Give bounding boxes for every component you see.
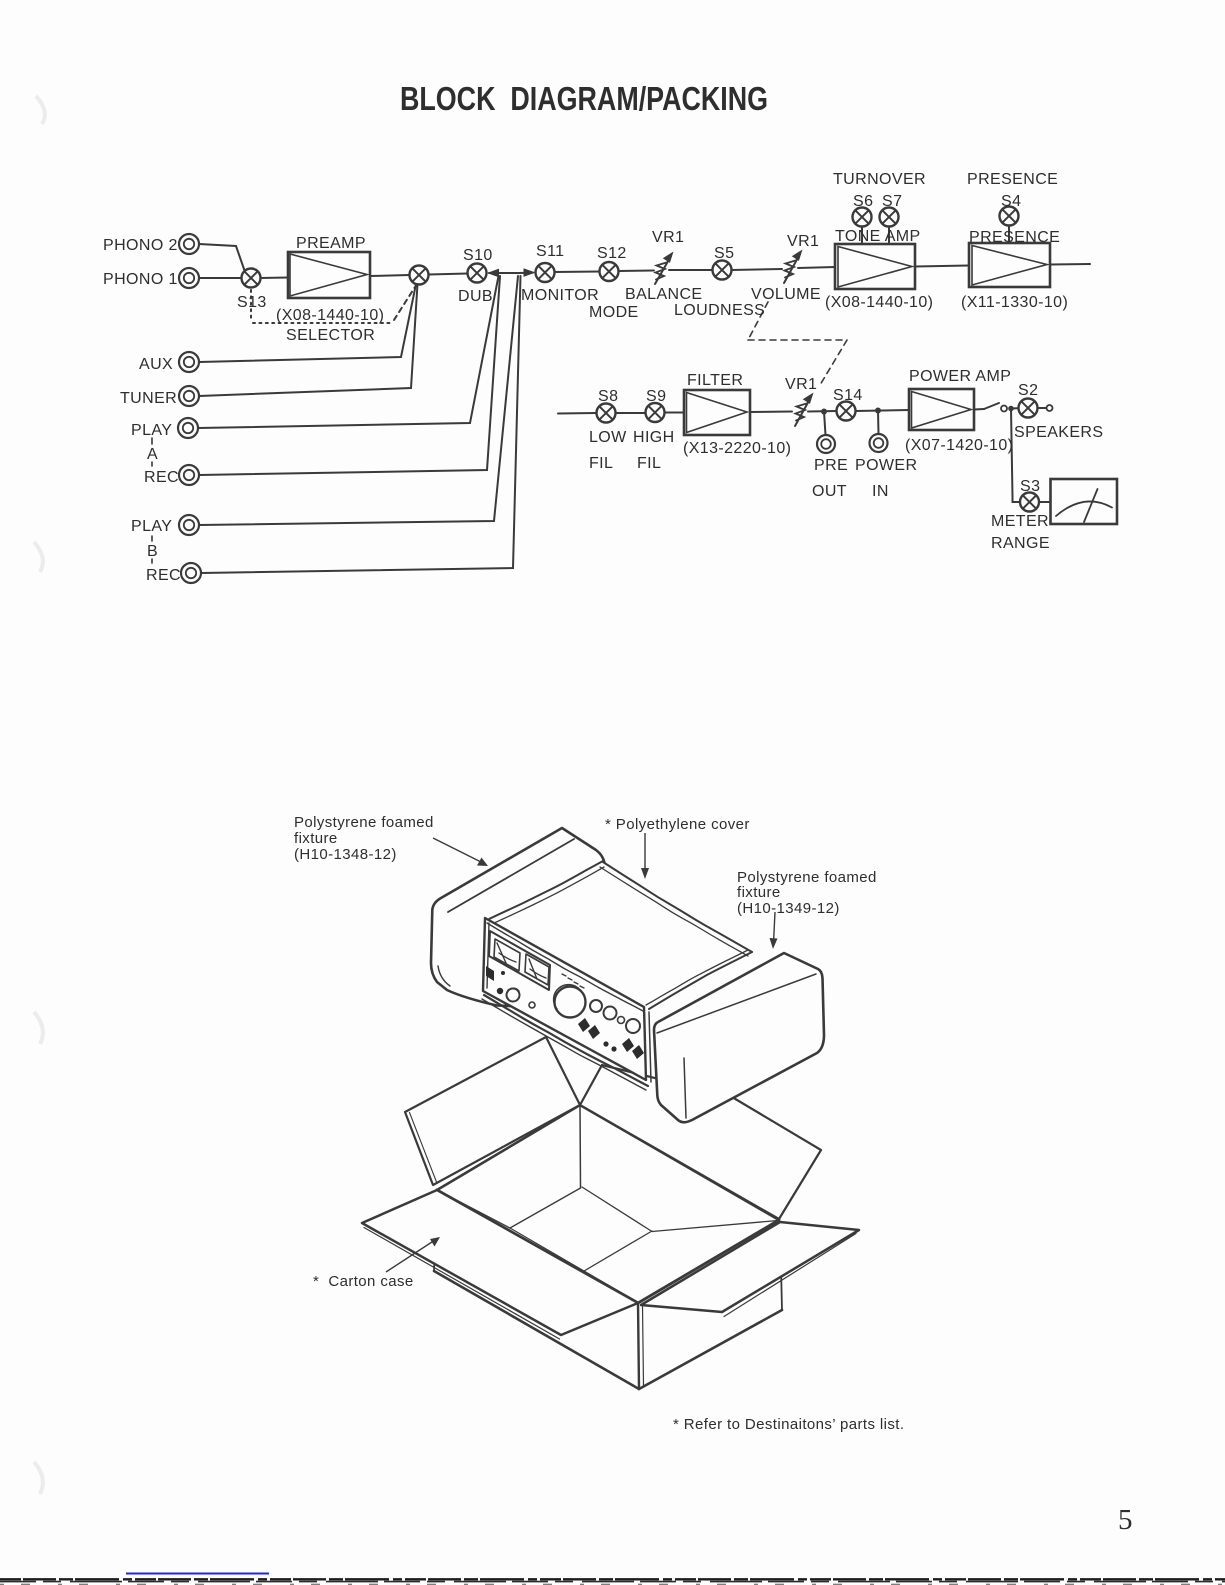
- node junction PRE OUT: [821, 409, 827, 415]
- svg-text:OUT: OUT: [812, 483, 847, 500]
- amplifier meter right: [525, 954, 549, 985]
- svg-text:RANGE: RANGE: [991, 535, 1050, 552]
- svg-text:METER: METER: [991, 513, 1049, 530]
- packing labels: [294, 814, 904, 1433]
- wire S13 to PREAMP: [261, 277, 289, 280]
- svg-text:VR1: VR1: [652, 229, 684, 246]
- svg-text:DUB: DUB: [458, 288, 493, 305]
- svg-text:HIGH: HIGH: [633, 429, 675, 446]
- svg-text:(X08-1440-10): (X08-1440-10): [825, 294, 933, 311]
- svg-text:SPEAKERS: SPEAKERS: [1014, 424, 1103, 441]
- switch S5 LOUDNESS: [713, 261, 732, 280]
- wire S3 to meter: [1039, 501, 1051, 503]
- node open contact right: [1047, 405, 1053, 411]
- svg-text:BALANCE: BALANCE: [625, 286, 703, 303]
- svg-text:Polystyrene foamed: Polystyrene foamed: [294, 814, 434, 831]
- connector PHONO 1: [179, 268, 199, 288]
- svg-text:(X07-1420-10): (X07-1420-10): [905, 437, 1013, 454]
- op-amp PREAMP box: [288, 252, 370, 298]
- svg-text:TUNER: TUNER: [120, 390, 177, 407]
- wire S12 to VR1 balance: [619, 270, 655, 273]
- switch S14: [837, 402, 856, 421]
- switch S11 MONITOR: [536, 263, 555, 282]
- wire S8 to S9: [616, 412, 646, 414]
- amplifier meter left: [494, 939, 520, 971]
- wire J1 to J2: [499, 272, 519, 274]
- switch SELECTOR: [410, 266, 429, 285]
- potentiometer VR1 BALANCE: [655, 252, 674, 285]
- svg-text:* Polyethylene cover: * Polyethylene cover: [605, 816, 750, 833]
- wire arrow into S10: [487, 269, 499, 278]
- switch S2 SPEAKERS: [1019, 399, 1038, 418]
- node junction POWER IN: [875, 408, 881, 414]
- svg-text:(H10-1348-12): (H10-1348-12): [294, 846, 397, 863]
- svg-text:POWER AMP: POWER AMP: [909, 368, 1011, 385]
- switch blade S2: [984, 403, 999, 409]
- meter M1 box: [1051, 479, 1118, 524]
- wire PRESENCE out: [1050, 263, 1090, 266]
- connector PLAY B: [179, 515, 199, 535]
- svg-text:PLAY: PLAY: [131, 518, 172, 535]
- wire REC A: [199, 276, 500, 475]
- svg-text:B: B: [147, 543, 158, 560]
- switch S6: [853, 208, 872, 227]
- wire S7 stem: [888, 227, 890, 245]
- svg-text:PHONO 1: PHONO 1: [103, 271, 178, 288]
- svg-text:S14: S14: [833, 387, 863, 404]
- wire TONE AMP to PRESENCE: [915, 266, 969, 267]
- wire S4 stem: [1008, 226, 1010, 244]
- switch S8 LOW FIL: [597, 404, 616, 423]
- wire PHONO1 to S13: [199, 277, 242, 279]
- op-amp POWER AMP box: [909, 389, 974, 430]
- connector REC B: [181, 563, 201, 583]
- left column connectors: [152, 276, 521, 583]
- op-amp TONE AMP box: [835, 244, 915, 289]
- svg-text:A: A: [147, 446, 158, 463]
- wire to POWER IN: [877, 411, 880, 435]
- polyethylene cover top surface: [489, 861, 752, 1009]
- svg-text:S11: S11: [536, 243, 564, 260]
- node open contact: [1001, 406, 1007, 412]
- wire to S2: [1011, 407, 1018, 409]
- page title: [400, 80, 768, 117]
- wire S14 to POWER AMP: [856, 410, 910, 411]
- wire PLAY A: [198, 276, 499, 428]
- carton box interior: [439, 1106, 778, 1300]
- svg-text:* Carton case: * Carton case: [313, 1273, 414, 1290]
- wire PHONO2 to S13: [199, 244, 245, 271]
- svg-text:VR1: VR1: [785, 376, 817, 393]
- svg-text:VOLUME: VOLUME: [751, 286, 821, 303]
- svg-text:PHONO 2: PHONO 2: [103, 237, 178, 254]
- op-amp FILTER box: [684, 390, 750, 435]
- svg-text:PRESENCE: PRESENCE: [969, 229, 1060, 246]
- connector TUNER: [179, 386, 199, 406]
- connector POWER IN: [870, 434, 888, 452]
- row2 labels: [589, 368, 1103, 552]
- wire REC B: [201, 276, 521, 573]
- blue pen line: [126, 1573, 269, 1575]
- right foam fixture H10-1349-12: [654, 953, 824, 1122]
- svg-text:BLOCK DIAGRAM/PACKING: BLOCK DIAGRAM/PACKING: [400, 80, 768, 117]
- carton box rim: [437, 1105, 779, 1303]
- amplifier right knobs: [590, 1000, 640, 1033]
- wire VR1 volume to TONE AMP: [798, 267, 835, 268]
- wire S9 to FILTER: [665, 412, 685, 414]
- wire dashed volume link: [748, 302, 847, 385]
- wire row2 input: [558, 412, 597, 415]
- wire selector to S10: [429, 274, 468, 275]
- svg-text:POWER: POWER: [855, 457, 917, 474]
- carton flap back-left: [405, 1037, 580, 1185]
- carton flap front-right: [641, 1222, 859, 1317]
- svg-text:(X11-1330-10): (X11-1330-10): [961, 294, 1068, 311]
- wire junction down to S3: [1011, 409, 1020, 503]
- amplifier big knob: [554, 985, 586, 1018]
- op-amp PRESENCE box: [969, 243, 1050, 287]
- svg-text:(H10-1349-12): (H10-1349-12): [737, 900, 840, 917]
- svg-text:fixture: fixture: [294, 830, 338, 847]
- connector PLAY A: [178, 418, 198, 438]
- wire TUNER: [199, 284, 418, 396]
- left foam fixture H10-1348-12: [431, 828, 612, 1010]
- carton flap front-left: [362, 1190, 638, 1339]
- wire arrow into S11: [519, 268, 536, 277]
- wire PLAY B: [199, 276, 518, 525]
- svg-text:IN: IN: [872, 483, 889, 500]
- svg-text:SELECTOR: SELECTOR: [286, 327, 375, 344]
- switch S4: [1000, 207, 1019, 226]
- wire VR1 to S14: [808, 410, 837, 413]
- wire S6 stem: [861, 227, 863, 245]
- svg-text:(X13-2220-10): (X13-2220-10): [683, 440, 791, 457]
- connector PHONO 2: [179, 234, 199, 254]
- PACKING FIGURE: [362, 828, 859, 1389]
- wire dashed selector link: [251, 287, 415, 323]
- svg-text:TONE AMP: TONE AMP: [835, 228, 921, 245]
- svg-text:S6: S6: [853, 193, 873, 210]
- svg-text:* Refer to Destinaitons’ parts: * Refer to Destinaitons’ parts list.: [673, 1416, 904, 1433]
- wire S5 to VR1 volume: [732, 269, 783, 270]
- svg-text:FIL: FIL: [637, 455, 661, 472]
- switch S10 DUB: [468, 264, 487, 283]
- node labels row1: [103, 171, 1068, 344]
- svg-text:S9: S9: [646, 388, 666, 405]
- svg-text:FILTER: FILTER: [687, 372, 743, 389]
- svg-text:MONITOR: MONITOR: [521, 287, 599, 304]
- ROW2: [558, 389, 1117, 524]
- node PLAY-A-REC ties: [151, 438, 153, 563]
- svg-text:S5: S5: [714, 245, 734, 262]
- potentiometer VR1 row2: [795, 393, 814, 427]
- svg-text:PLAY: PLAY: [131, 422, 172, 439]
- svg-text:REC: REC: [144, 469, 179, 486]
- wire PREAMP to selector: [370, 275, 410, 276]
- switch S12 MODE: [600, 262, 619, 281]
- bottom scan edge stripe: [0, 1579, 1225, 1584]
- svg-text:TURNOVER: TURNOVER: [833, 171, 926, 188]
- wire FILTER to VR1: [750, 411, 792, 414]
- switch S7: [880, 208, 899, 227]
- svg-text:LOUDNESS: LOUDNESS: [674, 302, 765, 319]
- svg-text:S2: S2: [1018, 382, 1038, 399]
- wire POWER AMP out: [974, 408, 984, 411]
- svg-text:S3: S3: [1020, 478, 1040, 495]
- wire S2 out: [1038, 407, 1047, 409]
- svg-text:5: 5: [1118, 1504, 1133, 1536]
- wire VR1 to S5: [669, 269, 713, 271]
- switch S13: [242, 269, 261, 288]
- potentiometer VR1 VOLUME: [784, 250, 803, 284]
- svg-text:S10: S10: [463, 247, 493, 264]
- svg-text:PRE: PRE: [814, 457, 848, 474]
- amplifier toggle levers: [578, 1018, 644, 1059]
- svg-text:S13: S13: [237, 294, 267, 311]
- left column labels: [120, 356, 181, 584]
- svg-text:LOW: LOW: [589, 429, 627, 446]
- node junction speakers: [1008, 406, 1014, 412]
- svg-text:REC: REC: [146, 567, 181, 584]
- switch S9 HIGH FIL: [646, 403, 665, 422]
- svg-text:PREAMP: PREAMP: [296, 235, 366, 252]
- amplifier panel tick marks: [562, 974, 584, 988]
- svg-text:VR1: VR1: [787, 233, 819, 250]
- wire to PRE OUT: [824, 412, 826, 436]
- connector AUX: [179, 352, 199, 372]
- switch S3 METER RANGE: [1020, 493, 1039, 512]
- connector REC A: [179, 465, 199, 485]
- svg-text:S4: S4: [1001, 193, 1021, 210]
- svg-text:S7: S7: [882, 193, 902, 210]
- amplifier meter frame: [489, 931, 550, 990]
- svg-text:S12: S12: [597, 245, 627, 262]
- amplifier power switch: [486, 966, 505, 981]
- packing arrows: [386, 833, 778, 1272]
- svg-text:MODE: MODE: [589, 304, 639, 321]
- svg-text:AUX: AUX: [139, 356, 173, 373]
- svg-text:(X08-1440-10): (X08-1440-10): [276, 307, 384, 324]
- svg-text:S8: S8: [598, 388, 618, 405]
- wire AUX: [199, 284, 416, 362]
- scan artifacts: binder hole shadows: [34, 96, 45, 1494]
- carton box walls: [434, 1190, 782, 1389]
- svg-text:PRESENCE: PRESENCE: [967, 171, 1058, 188]
- amplifier front panel: [482, 918, 651, 1090]
- amplifier small knob and dots: [497, 988, 535, 1008]
- wire S11 to S12: [555, 271, 600, 274]
- svg-text:fixture: fixture: [737, 884, 781, 901]
- connector PRE OUT: [817, 435, 835, 453]
- carton flap back-right: [580, 1065, 821, 1219]
- svg-text:FIL: FIL: [589, 455, 613, 472]
